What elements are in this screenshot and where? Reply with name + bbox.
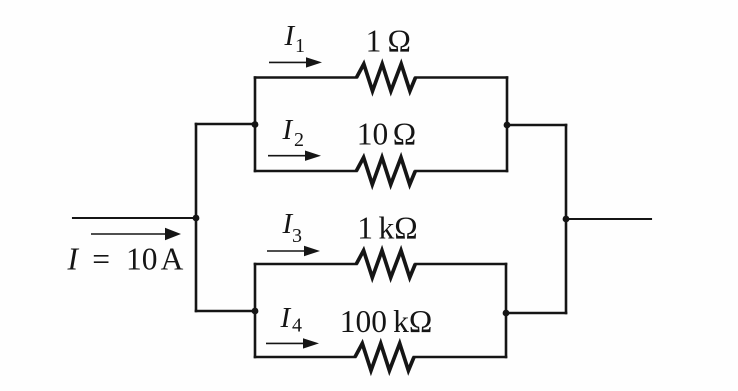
wire branch1 left bbox=[255, 76, 357, 79]
svg-text:3: 3 bbox=[292, 225, 302, 247]
svg-text:100: 100 bbox=[340, 304, 387, 339]
arrow I4 bbox=[266, 338, 319, 348]
wire input horizontal bbox=[73, 217, 196, 219]
svg-text:2: 2 bbox=[294, 129, 304, 151]
wire branch4 left bbox=[255, 356, 355, 359]
junction dot left bus input bbox=[193, 215, 200, 222]
svg-text:=: = bbox=[92, 241, 110, 276]
svg-text:kΩ: kΩ bbox=[393, 304, 432, 339]
svg-text:kΩ: kΩ bbox=[379, 211, 418, 246]
wire branch2 right bbox=[416, 170, 508, 173]
wire pair34 right bus bbox=[505, 264, 508, 357]
wire left bus vertical bbox=[195, 124, 198, 311]
svg-text:I: I bbox=[282, 114, 294, 146]
resistor R1 1ohm zigzag bbox=[357, 64, 416, 91]
arrow input current I bbox=[91, 228, 181, 240]
wire branch1 right bbox=[416, 76, 508, 79]
wire pair34 left bus bbox=[254, 264, 257, 357]
wire right outer bus bbox=[565, 125, 568, 313]
wire pair34 to outer bus bbox=[506, 312, 566, 315]
wire branch2 left bbox=[255, 170, 356, 173]
wire top stub bbox=[196, 123, 255, 126]
resistor R3 1kohm zigzag bbox=[356, 251, 415, 278]
svg-text:10: 10 bbox=[357, 117, 389, 152]
svg-text:1: 1 bbox=[366, 24, 382, 59]
wire pair12 left bus bbox=[254, 78, 257, 172]
svg-text:I: I bbox=[284, 20, 296, 52]
junction dot pair12 right bbox=[504, 122, 511, 129]
resistor R2 10ohm zigzag bbox=[356, 158, 415, 185]
svg-text:Ω: Ω bbox=[388, 24, 411, 59]
svg-text:I: I bbox=[280, 302, 292, 334]
junction dot pair12 left bbox=[252, 121, 259, 128]
wire branch3 left bbox=[255, 263, 356, 266]
svg-text:10: 10 bbox=[126, 241, 158, 276]
junction dot output bbox=[563, 216, 570, 223]
resistor R4 100kohm zigzag bbox=[355, 344, 414, 371]
svg-text:Ω: Ω bbox=[393, 117, 416, 152]
wire branch3 right bbox=[416, 263, 507, 266]
svg-text:1: 1 bbox=[295, 35, 305, 57]
arrow I2 bbox=[268, 151, 321, 161]
wire pair12 right bus bbox=[506, 78, 509, 172]
wire branch4 right bbox=[414, 356, 506, 359]
wire output bbox=[566, 218, 651, 220]
wire pair12 to outer bus bbox=[507, 124, 566, 127]
arrow I3 bbox=[267, 246, 320, 256]
junction dot pair34 left bbox=[252, 308, 259, 315]
arrow I1 bbox=[269, 57, 322, 67]
svg-text:1: 1 bbox=[357, 211, 373, 246]
svg-text:4: 4 bbox=[292, 315, 302, 337]
wire bottom stub bbox=[196, 310, 255, 313]
junction dot pair34 right bbox=[503, 310, 510, 317]
svg-text:I: I bbox=[67, 241, 80, 276]
svg-text:A: A bbox=[161, 241, 184, 276]
